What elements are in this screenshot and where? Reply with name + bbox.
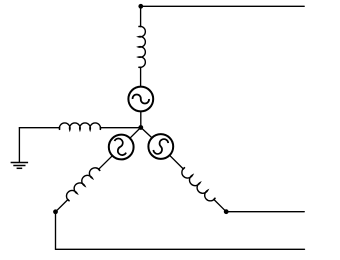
wire L3 to right node	[214, 199, 226, 211]
wire top bus	[141, 5, 304, 7]
inductor L2	[66, 168, 100, 201]
node left	[53, 209, 58, 214]
node center	[138, 125, 143, 130]
wire center node to V3	[141, 127, 152, 137]
inductor L1	[138, 26, 145, 67]
wire right bus	[226, 211, 304, 213]
ac source V2	[109, 135, 134, 160]
wire center node to V2	[130, 127, 141, 138]
wire L1 to V1	[140, 67, 142, 86]
wire ground stem	[18, 128, 20, 163]
node top	[138, 4, 143, 9]
wire V2 to L2	[99, 156, 113, 170]
ac source V1	[128, 87, 153, 112]
wire V1 to center node	[140, 111, 142, 127]
wire bottom bus	[56, 248, 305, 250]
ground	[11, 163, 29, 169]
ac source V3	[148, 134, 173, 159]
wire V3 to L3	[170, 155, 184, 169]
wire center node to L4	[100, 127, 141, 129]
inductor L3	[182, 167, 215, 200]
wire L4 to ground corner	[19, 127, 59, 129]
wire left node down	[55, 212, 57, 250]
node right	[224, 209, 229, 214]
wire top node down	[140, 6, 142, 26]
wire L2 to left node	[56, 200, 68, 212]
inductor L4	[59, 123, 100, 130]
